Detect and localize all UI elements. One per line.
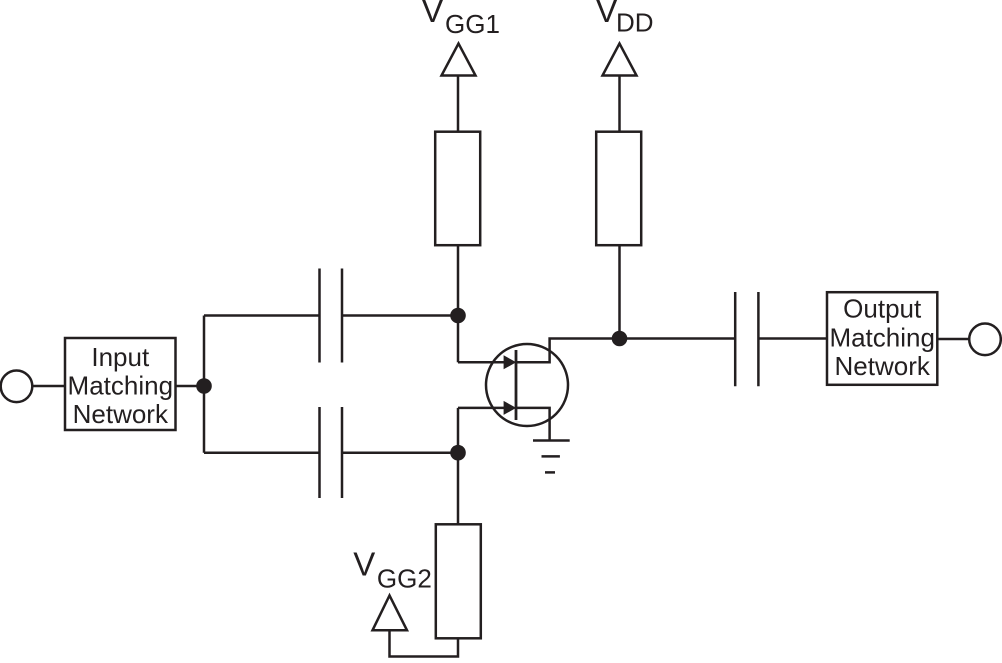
svg-text:V: V (596, 0, 618, 29)
svg-text:V: V (422, 0, 444, 29)
svg-text:Matching: Matching (68, 371, 174, 401)
svg-text:DD: DD (616, 8, 654, 38)
svg-text:Network: Network (835, 351, 931, 381)
svg-text:V: V (353, 546, 375, 583)
svg-text:GG2: GG2 (377, 564, 432, 594)
svg-text:Matching: Matching (829, 322, 935, 352)
svg-text:Input: Input (91, 342, 150, 372)
svg-text:Network: Network (73, 399, 169, 429)
svg-text:Output: Output (843, 294, 922, 324)
svg-text:GG1: GG1 (445, 9, 500, 39)
